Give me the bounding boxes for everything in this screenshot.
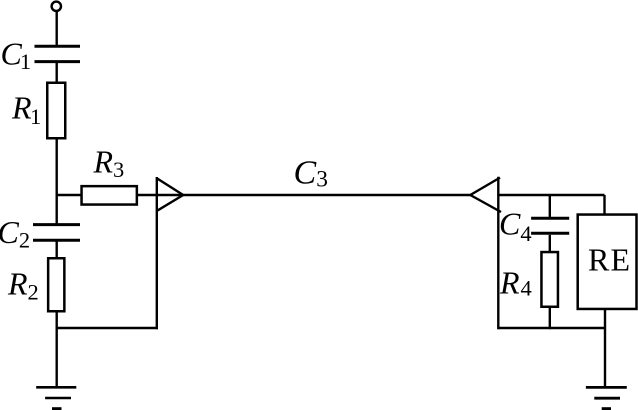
resistor R1 <box>47 83 65 139</box>
left buffer vertical line down to bottom wire <box>156 177 158 329</box>
top right wire <box>498 194 604 196</box>
capacitor C4 <box>531 218 569 233</box>
bottom right wire <box>498 327 606 329</box>
capacitor C2 <box>33 225 80 241</box>
wire node to R3 <box>56 194 84 196</box>
bottom left wire node to buffer line <box>57 327 158 329</box>
resistor R4 <box>541 252 558 307</box>
wire down to RE box <box>603 195 605 215</box>
resistor R3 <box>82 186 137 204</box>
right buffer vertical line down to bottom wire <box>497 177 499 329</box>
wire RE box bottom to ground <box>604 309 606 387</box>
C4 stub from top wire <box>549 195 551 218</box>
RE box <box>578 215 637 309</box>
terminal circle (input) <box>52 2 61 11</box>
ground right <box>586 387 627 408</box>
wire R4 to bottom wire <box>549 306 551 329</box>
wire R1 down to C2 (through node at y=195) <box>56 138 58 224</box>
wire terminal to C1 <box>56 11 58 45</box>
wire R3 to left buffer and long line C3 to right buffer <box>137 194 471 196</box>
svg-text:RE: RE <box>588 242 631 278</box>
ground left <box>36 387 76 409</box>
wire C1 to R1 <box>56 63 58 83</box>
wire C2 to R2 <box>56 242 58 259</box>
wire C4 to R4 <box>549 235 551 252</box>
capacitor C1 <box>35 46 81 61</box>
resistor R2 <box>48 258 64 311</box>
left buffer triangle <box>157 178 183 211</box>
right buffer triangle <box>470 178 501 212</box>
wire R2 to ground (through node at y=328) <box>56 312 58 388</box>
